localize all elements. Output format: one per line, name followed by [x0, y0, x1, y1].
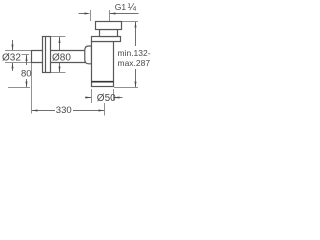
svg-text:Ø32: Ø32: [2, 53, 21, 64]
svg-text:Ø50: Ø50: [97, 93, 116, 104]
svg-text:max.287: max.287: [118, 58, 151, 68]
svg-text:80: 80: [21, 69, 32, 80]
svg-text:¼: ¼: [128, 1, 137, 13]
svg-text:330: 330: [56, 105, 72, 116]
svg-text:min.132-: min.132-: [118, 48, 151, 58]
svg-text:Ø80: Ø80: [52, 53, 71, 64]
svg-text:G1: G1: [115, 2, 127, 12]
